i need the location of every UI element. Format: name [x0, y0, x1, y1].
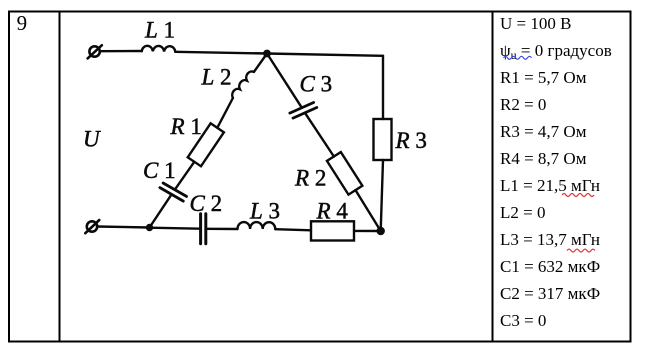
resistor R3 [374, 119, 392, 160]
svg-text:R 3: R 3 [395, 128, 427, 153]
svg-text:R 2: R 2 [294, 166, 326, 191]
svg-text:L1 = 21,5 мГн: L1 = 21,5 мГн [500, 176, 600, 195]
svg-text:R 4: R 4 [316, 199, 349, 224]
svg-text:R3 = 4,7 Ом: R3 = 4,7 Ом [500, 122, 587, 141]
wire R2 to bottom-right node [356, 190, 381, 231]
wire L2 to R1 [217, 98, 233, 128]
capacitor C3 [290, 103, 317, 119]
node bottom-left [146, 224, 153, 231]
resistor R1 [188, 123, 224, 166]
svg-text:L 2: L 2 [201, 65, 232, 90]
svg-text:L 1: L 1 [144, 18, 175, 43]
svg-text:R 1: R 1 [170, 114, 202, 139]
spellcheck wave red 1 [562, 194, 594, 197]
svg-text:U = 100 В: U = 100 В [500, 14, 571, 33]
capacitor C2 [201, 214, 206, 244]
terminal top-left [88, 45, 102, 58]
wire top node to L2 [254, 54, 267, 72]
svg-text:L3 = 13,7 мГн: L3 = 13,7 мГн [500, 230, 600, 249]
wire terminal to L1 [100, 50, 142, 53]
wire top node to C3 [267, 54, 302, 108]
wire L1 to top node [175, 52, 267, 54]
wire R1 to C1 [175, 162, 195, 190]
svg-text:L2 = 0: L2 = 0 [500, 203, 545, 222]
svg-text:9: 9 [17, 11, 28, 35]
table column line 2 [492, 12, 494, 342]
wire R3 to bottom-right node [381, 160, 383, 231]
capacitor C1 [160, 183, 187, 201]
wire corner down to R3 [382, 56, 384, 119]
inductor L2 [232, 71, 254, 98]
wire C3 to R2 [305, 113, 334, 157]
svg-text:R2 = 0: R2 = 0 [500, 95, 546, 114]
table column line 1 [59, 12, 61, 342]
svg-text:L 3: L 3 [249, 199, 280, 224]
wire bottom-left node to C2 [150, 228, 201, 229]
svg-text:C 1: C 1 [143, 158, 176, 183]
wire C2 to L3 [206, 228, 238, 231]
inductor L1 [142, 46, 176, 52]
resistor R2 [327, 152, 362, 195]
svg-text:C2 = 317 мкФ: C2 = 317 мкФ [500, 284, 600, 303]
svg-text:C1 = 632 мкФ: C1 = 632 мкФ [500, 257, 600, 276]
inductor L3 [238, 222, 276, 229]
svg-text:R4 = 8,7 Ом: R4 = 8,7 Ом [500, 149, 587, 168]
wire C1 to bottom-left node [150, 194, 172, 227]
resistor R4 [311, 221, 354, 240]
wire L3 to R4 [275, 229, 311, 230]
node bottom-right [377, 227, 385, 235]
terminal bottom-left [85, 220, 99, 233]
svg-text:C 2: C 2 [190, 191, 223, 216]
svg-text:C3 = 0: C3 = 0 [500, 311, 546, 330]
svg-text:R1 = 5,7 Ом: R1 = 5,7 Ом [500, 68, 587, 87]
svg-text:U: U [83, 127, 101, 152]
node top [263, 50, 271, 58]
wire R4 to bottom-right node [354, 230, 381, 233]
spellcheck wave blue [504, 56, 532, 59]
wire terminal to bottom-left node [97, 227, 150, 228]
wire top node to corner [267, 54, 383, 56]
spellcheck wave red 2 [567, 249, 595, 252]
svg-text:C 3: C 3 [300, 72, 333, 97]
